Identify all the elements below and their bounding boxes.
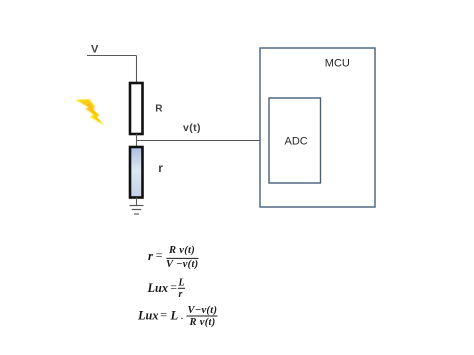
svg-text:ADC: ADC (285, 136, 308, 148)
photoresistor r (130, 147, 143, 198)
ADC box (269, 98, 321, 183)
wire node v(t) to ADC (137, 140, 270, 142)
svg-text:Lux: Lux (147, 281, 169, 295)
svg-text:V−v(t): V−v(t) (188, 305, 218, 316)
svg-text:V: V (91, 44, 99, 56)
ground (130, 206, 144, 215)
lightning bolt (light source) (75, 99, 104, 126)
formula 2: Lux = L / r (147, 278, 186, 301)
svg-text:R v(t): R v(t) (168, 245, 195, 256)
svg-text:=: = (170, 280, 177, 294)
wire V horizontal (87, 55, 137, 57)
wire R to node (136, 134, 138, 147)
svg-text:R v(t): R v(t) (189, 317, 216, 328)
svg-text:=: = (160, 307, 167, 321)
wire V to resistor R (136, 56, 138, 84)
MCU box U1 (260, 48, 375, 207)
svg-text:R: R (155, 104, 163, 115)
svg-text:r: r (158, 161, 163, 175)
formula 1: r = R v(t) / (V - v(t)) (148, 245, 199, 270)
svg-text:r: r (179, 289, 183, 300)
svg-text:v(t): v(t) (183, 122, 201, 134)
resistor R (130, 83, 143, 134)
svg-text:L: L (170, 309, 179, 323)
svg-text:r: r (148, 249, 153, 263)
formula 3: Lux = L . (V - v(t)) / (R v(t)) (137, 305, 218, 328)
svg-text:=: = (156, 248, 163, 262)
svg-text:.: . (181, 308, 184, 322)
wire r to ground (136, 198, 138, 207)
svg-text:Lux: Lux (137, 309, 159, 323)
svg-text:L: L (178, 278, 185, 289)
svg-text:V −v(t): V −v(t) (166, 259, 198, 270)
svg-text:MCU: MCU (325, 58, 350, 70)
